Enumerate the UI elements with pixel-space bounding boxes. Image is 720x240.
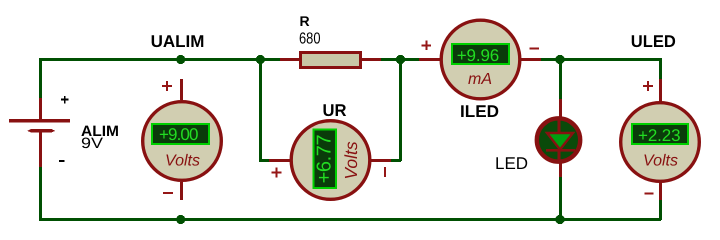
svg-text:+9.96: +9.96 — [457, 46, 500, 65]
svg-text:680: 680 — [299, 31, 321, 48]
svg-text:ILED: ILED — [460, 102, 499, 121]
svg-text:Volts: Volts — [643, 153, 678, 170]
svg-text:+9.00: +9.00 — [159, 125, 199, 144]
svg-text:Volts: Volts — [165, 153, 200, 170]
svg-text:Volts: Volts — [341, 141, 361, 180]
svg-text:+2.23: +2.23 — [638, 126, 681, 145]
svg-text:ULED: ULED — [631, 32, 676, 51]
svg-text:R: R — [300, 13, 310, 29]
svg-text:UR: UR — [323, 101, 347, 120]
svg-text:UALIM: UALIM — [151, 32, 205, 51]
svg-text:mA: mA — [468, 71, 492, 88]
svg-text:+6.77: +6.77 — [314, 134, 336, 183]
svg-text:9V: 9V — [81, 135, 103, 152]
svg-text:LED: LED — [495, 154, 528, 173]
